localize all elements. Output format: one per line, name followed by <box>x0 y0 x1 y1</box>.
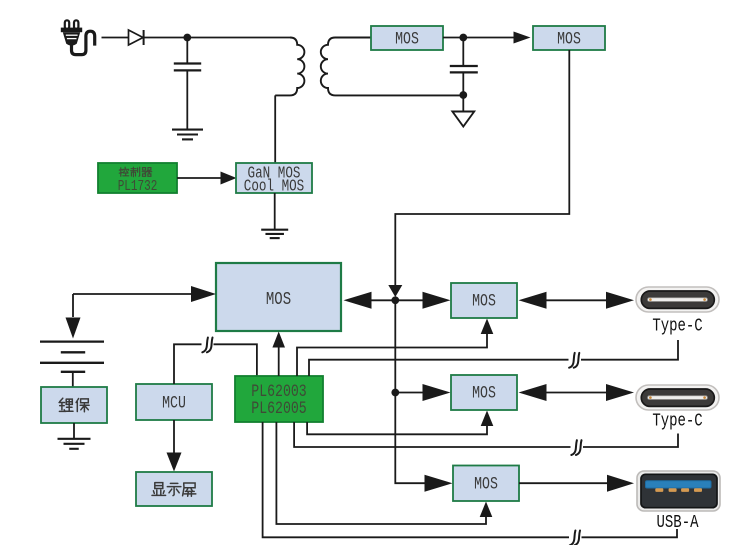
diode D1 <box>129 30 144 45</box>
ground <box>172 130 203 140</box>
wire arrow to U5 gate <box>297 319 493 377</box>
wire MCU comm <box>174 344 257 384</box>
wire double arrow <box>519 292 635 309</box>
line-jump J2 <box>569 353 579 368</box>
MOS box U3 <box>371 26 443 50</box>
transformer secondary winding <box>321 38 463 96</box>
svg-text:MOS: MOS <box>474 474 498 494</box>
wire arrow to battery <box>66 286 217 339</box>
MOS box U5 <box>451 283 517 318</box>
line-jump J4 <box>570 531 580 545</box>
Type-C connector 1 <box>636 287 719 312</box>
node D junction <box>391 296 399 304</box>
node B junction <box>459 34 467 42</box>
transformer primary winding <box>275 38 304 96</box>
wire <box>394 300 396 392</box>
svg-text:MOS: MOS <box>266 288 291 309</box>
wire <box>443 37 463 39</box>
AC plug icon <box>61 20 95 54</box>
wire arrow <box>177 172 237 185</box>
line-jump J3 <box>571 440 581 455</box>
controller box PL62003/PL62005 <box>235 376 323 422</box>
svg-text:MOS: MOS <box>557 29 581 49</box>
wire arrow up to U0 <box>272 332 285 377</box>
wire double arrow <box>519 384 635 401</box>
MOS box U7 <box>453 466 519 502</box>
ground <box>58 423 91 449</box>
svg-text:USB-A: USB-A <box>657 511 699 532</box>
node C junction <box>459 91 467 99</box>
wire <box>102 37 129 39</box>
ground <box>261 230 288 238</box>
arrow into node D <box>388 285 402 297</box>
wire <box>274 95 276 163</box>
wire arrow <box>395 292 450 309</box>
MOS box U4 <box>533 26 605 50</box>
node A junction <box>183 34 191 42</box>
wire arrow <box>344 292 396 309</box>
svg-text:Type-C: Type-C <box>652 315 703 336</box>
svg-text:MCU: MCU <box>162 393 186 413</box>
wire arrow <box>395 384 450 401</box>
svg-text:Type-C: Type-C <box>652 410 703 431</box>
USB-A connector <box>637 471 720 511</box>
node E junction <box>391 389 399 397</box>
controller box PL1732 <box>98 163 177 194</box>
MOS box U6 <box>451 375 517 410</box>
line-jump J1 <box>202 338 212 353</box>
wire arrow <box>395 393 452 492</box>
capacitor C2 <box>450 38 478 96</box>
wire arrow <box>167 420 182 472</box>
capacitor C1 <box>174 38 201 130</box>
wire arrow <box>463 32 530 44</box>
svg-text:MOS: MOS <box>395 29 419 49</box>
MOS box U0 (main) <box>216 263 341 331</box>
wire comm to Type-C 1 <box>309 340 678 376</box>
svg-text:PL62005: PL62005 <box>251 398 306 418</box>
battery BT1 <box>40 342 104 387</box>
MCU box U8 <box>136 384 212 420</box>
svg-text:MOS: MOS <box>472 383 496 403</box>
GaN/Cool MOS box U2 <box>236 163 312 196</box>
wire arrow to U6 gate <box>307 411 493 435</box>
wire arrow to U7 gate <box>276 422 492 524</box>
display box (显示屏) <box>136 472 212 506</box>
wire <box>274 193 276 230</box>
wire <box>145 37 188 39</box>
wire arrow <box>519 475 634 492</box>
svg-text:PL1732: PL1732 <box>118 178 158 195</box>
wire comm to Type-C 2 <box>294 422 678 447</box>
wire <box>187 37 290 39</box>
earth ground (triangle) <box>452 95 474 127</box>
li-protect box (锂保) <box>41 387 107 423</box>
wire <box>395 50 569 286</box>
svg-text:MOS: MOS <box>472 291 496 311</box>
Type-C connector 2 <box>636 385 719 410</box>
wire comm to USB-A <box>263 422 677 537</box>
